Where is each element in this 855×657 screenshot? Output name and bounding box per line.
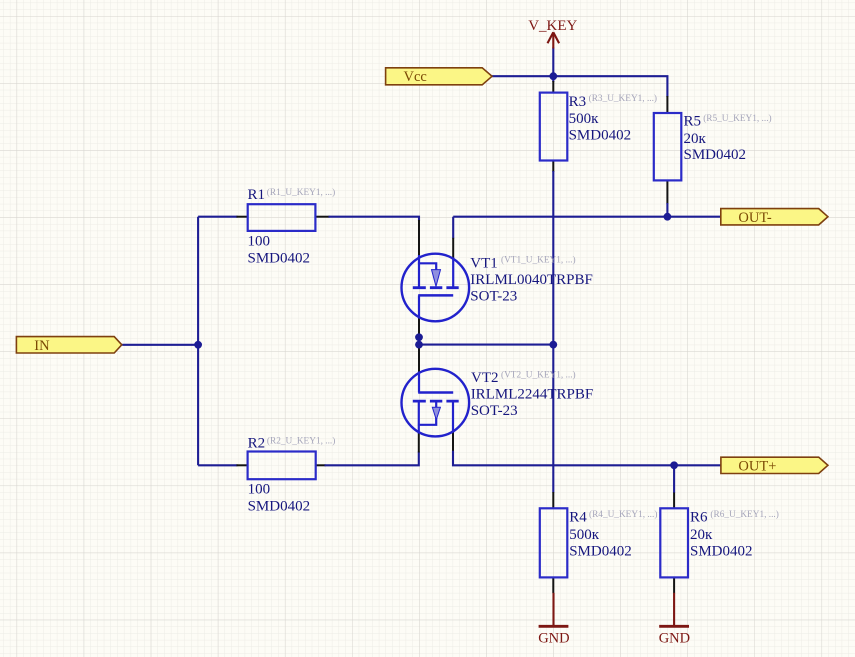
VT2 body bend — [418, 401, 436, 425]
svg-text:VT2: VT2 — [471, 370, 499, 386]
svg-text:IRLML2244TRPBF: IRLML2244TRPBF — [471, 387, 594, 403]
svg-text:(VT1_U_KEY1, ...): (VT1_U_KEY1, ...) — [501, 254, 576, 265]
pin R4 top — [552, 492, 554, 508]
VT1 source contact — [418, 255, 420, 289]
VT1 channel segments — [413, 286, 459, 289]
svg-text:(R2_U_KEY1, ...): (R2_U_KEY1, ...) — [267, 435, 335, 446]
VT1 drain contact — [452, 258, 454, 289]
wire OUT+ junction down to R6 — [673, 465, 675, 493]
resistor R3 — [540, 93, 568, 161]
port IN — [16, 337, 121, 354]
svg-text:VT1: VT1 — [470, 255, 498, 271]
svg-text:(R5_U_KEY1, ...): (R5_U_KEY1, ...) — [703, 113, 771, 124]
svg-text:100: 100 — [248, 482, 271, 498]
svg-text:SMD0402: SMD0402 — [569, 127, 632, 143]
svg-text:20к: 20к — [690, 527, 713, 543]
transistor VT2 (P-MOSFET, flipped) — [402, 369, 470, 437]
VT2 channel segments — [413, 400, 459, 403]
port OUT+ — [721, 457, 828, 474]
svg-text:(R3_U_KEY1, ...): (R3_U_KEY1, ...) — [589, 93, 657, 104]
wire Vcc to V_KEY junction to R5 corner — [492, 76, 667, 97]
svg-text:R1: R1 — [248, 187, 266, 203]
wire VT1 drain stub — [452, 217, 454, 239]
wire middle to center junction — [419, 344, 553, 346]
ground GND2 symbol — [659, 593, 689, 627]
svg-text:SMD0402: SMD0402 — [248, 499, 311, 515]
pin VT1 gate — [418, 318, 420, 338]
wire R1 right to VT1 source pin — [329, 217, 420, 221]
VT2 gate riser — [418, 372, 420, 393]
pin R5 bottom — [666, 180, 668, 204]
svg-text:R5: R5 — [684, 114, 702, 130]
pin R3 top — [552, 81, 554, 93]
pin VT2 gate — [418, 345, 420, 373]
VT1 body bend — [418, 263, 436, 270]
wire R1 row: IN riser to VT1 source corner — [198, 216, 237, 218]
wire R5 to OUT- junction — [666, 203, 668, 217]
wire OUT- : VT1 drain corner to port — [453, 216, 721, 218]
svg-text:(R4_U_KEY1, ...): (R4_U_KEY1, ...) — [589, 509, 657, 520]
port OUT- — [721, 209, 828, 226]
svg-text:OUT+: OUT+ — [738, 459, 776, 475]
transistor VT1 (N-MOSFET) — [402, 254, 470, 322]
pin R5 top — [666, 96, 668, 113]
VT2 drain contact — [452, 400, 454, 433]
svg-text:SMD0402: SMD0402 — [248, 251, 311, 267]
ground GND1 symbol — [539, 593, 569, 627]
junction OUT- R5 — [664, 213, 672, 221]
svg-text:R2: R2 — [248, 435, 266, 451]
wire IN port to junction — [122, 344, 198, 346]
svg-text:SMD0402: SMD0402 — [684, 147, 747, 163]
svg-text:SMD0402: SMD0402 — [569, 544, 632, 560]
resistor R2 — [248, 452, 316, 480]
resistor R1 — [248, 204, 316, 231]
resistor R4 — [540, 508, 568, 577]
junction VT2 gate pin — [415, 341, 423, 349]
svg-text:GND: GND — [538, 631, 569, 647]
VT1 gate drop — [418, 295, 420, 318]
svg-text:500к: 500к — [569, 527, 600, 543]
VT1 body arrow — [432, 270, 441, 287]
svg-text:(VT2_U_KEY1, ...): (VT2_U_KEY1, ...) — [501, 369, 576, 380]
svg-text:20к: 20к — [684, 131, 707, 147]
wire R2 to VT2 source — [325, 452, 419, 466]
svg-text:R3: R3 — [569, 94, 587, 110]
svg-text:(R6_U_KEY1, ...): (R6_U_KEY1, ...) — [710, 509, 778, 520]
junction Vcc/V_KEY/R3 — [549, 72, 557, 80]
svg-text:100: 100 — [248, 233, 271, 249]
svg-text:V_KEY: V_KEY — [528, 18, 577, 34]
pin R3 bottom — [552, 161, 554, 173]
pin VT2 source — [418, 432, 420, 452]
pin R6 top — [673, 493, 675, 509]
resistor R6 — [660, 508, 688, 577]
wire IN riser to R2 — [198, 464, 237, 466]
svg-text:SOT-23: SOT-23 — [471, 403, 518, 419]
wire VT2 drain to OUT+ port — [453, 451, 721, 466]
pin R1 right — [315, 216, 329, 218]
svg-text:R4: R4 — [569, 510, 587, 526]
svg-text:IN: IN — [34, 338, 50, 354]
svg-text:SOT-23: SOT-23 — [470, 288, 517, 304]
svg-text:SMD0402: SMD0402 — [690, 544, 753, 560]
pin VT1 source — [418, 220, 420, 258]
VT1 gate bar — [418, 294, 453, 297]
pin VT1 drain — [452, 238, 454, 259]
svg-text:R6: R6 — [690, 510, 708, 526]
VT2 body arrow — [432, 407, 440, 420]
junction IN — [194, 341, 202, 349]
svg-text:GND: GND — [659, 631, 690, 647]
VT2 gate bar — [418, 391, 453, 394]
wire R3 bottom to center junction down to R4 — [552, 171, 554, 493]
wire V_KEY stem (blue part) — [552, 48, 554, 77]
wire junction down to R3 — [552, 76, 554, 82]
port Vcc — [386, 68, 492, 85]
svg-text:Vcc: Vcc — [404, 69, 427, 85]
svg-text:OUT-: OUT- — [738, 210, 771, 226]
junction VT1 gate pin — [415, 333, 423, 341]
junction OUT+ R6 — [670, 461, 678, 469]
svg-text:IRLML0040TRPBF: IRLML0040TRPBF — [470, 272, 593, 288]
pin R2 left — [237, 464, 248, 466]
pin R1 left — [237, 216, 248, 218]
pin R4 bottom — [552, 577, 554, 593]
pin VT2 drain — [452, 431, 454, 451]
power port V_KEY arrow — [548, 32, 560, 48]
junction center line middle — [549, 341, 557, 349]
svg-text:(R1_U_KEY1, ...): (R1_U_KEY1, ...) — [267, 187, 335, 198]
VT2 source contact — [418, 400, 420, 434]
svg-text:500к: 500к — [569, 111, 600, 127]
resistor R5 — [654, 113, 682, 180]
pin R2 right — [316, 464, 326, 466]
wire between VT1 gate and VT2 gate dots — [418, 337, 420, 344]
pin R6 bottom — [673, 577, 675, 593]
wire IN riser vertical — [197, 217, 199, 466]
